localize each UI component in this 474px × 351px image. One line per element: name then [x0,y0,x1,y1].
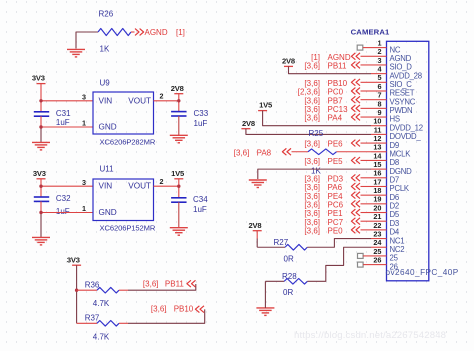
svg-text:4.7K: 4.7K [93,299,110,308]
svg-text:AGND: AGND [145,28,168,37]
ground [67,32,85,57]
svg-text:15: 15 [373,160,381,169]
svg-text:1V5: 1V5 [259,101,273,110]
capacitor C1: C31 body [34,111,49,113]
svg-text:23: 23 [373,229,381,238]
wire GND U11 pin1 [41,212,93,214]
pin 18 stub of CAMERA1 [371,194,387,196]
port PA8 to R25 [234,148,291,157]
svg-text:[3,6]: [3,6] [304,79,320,88]
svg-text:R26: R26 [99,10,114,19]
svg-text:D2: D2 [390,202,399,211]
svg-text:CAMERA1: CAMERA1 [351,27,390,36]
svg-text:GND: GND [99,123,117,132]
pin 7 stub of CAMERA1 [371,99,387,101]
wire 2V8 down to C33 [178,93,180,111]
svg-text:PB10: PB10 [328,79,348,88]
wire VIN U9 pin3 [41,100,93,102]
svg-text:3: 3 [82,93,86,102]
svg-text:8: 8 [377,99,381,108]
pin 2 stub of CAMERA1 [371,55,387,57]
svg-text:AGND: AGND [328,53,351,62]
svg-text:C33: C33 [194,109,209,118]
svg-text:2: 2 [160,177,164,186]
resistor R27 (0R) to pin 23 NC1 [257,239,371,250]
svg-text:MCLK: MCLK [390,149,412,158]
svg-text:0R: 0R [283,288,293,297]
svg-text:1: 1 [82,204,86,213]
svg-text:[3,6]: [3,6] [304,62,320,71]
resistor R25 in MCLK line [292,149,372,155]
svg-text:1: 1 [377,39,381,48]
pin 1 stub of CAMERA1 [371,47,387,49]
svg-text:PD3: PD3 [328,174,344,183]
node junction R36 tap [75,289,78,292]
svg-text:NC2: NC2 [390,245,405,254]
node junction C32/GND U11 [39,211,42,214]
svg-text:[3,6]: [3,6] [304,96,320,105]
capacitor C34 labels [193,195,208,214]
capacitor C33 labels [194,109,209,128]
svg-text:RESET: RESET [390,89,415,98]
svg-text:[3,6]: [3,6] [304,140,320,149]
svg-text:[3,6]: [3,6] [304,200,320,209]
pin 10 stub of CAMERA1 [371,125,387,127]
svg-text:10: 10 [373,117,381,126]
svg-text:0R: 0R [284,255,294,264]
svg-text:13: 13 [373,143,381,152]
svg-text:HS: HS [390,115,400,124]
node junction VOUT/1V5 [177,185,180,188]
node junction VOUT/2V8 [177,99,180,102]
svg-text:D9: D9 [390,141,399,150]
svg-text:1uF: 1uF [56,118,70,127]
svg-text:[1]: [1] [311,53,320,62]
pin 14 stub of CAMERA1 [371,159,387,161]
svg-text:[3,6]: [3,6] [304,226,320,235]
svg-text:C32: C32 [56,194,71,203]
op-amp U1: regulator U9 box [93,92,154,134]
pin 17 stub of CAMERA1 [371,185,387,187]
port PB11 to pin 3 [304,62,371,71]
svg-text:SIO_C: SIO_C [390,80,413,89]
power 2V8 to pin 4 AVDD_28 [282,57,371,74]
svg-text:1uF: 1uF [56,207,70,216]
wire R26 left to ground [76,32,98,49]
node junction 3V3/VIN U11 [39,185,42,188]
svg-text:PB11: PB11 [328,62,348,71]
svg-text:26: 26 [390,262,398,271]
svg-text:1V5: 1V5 [171,169,185,178]
svg-text:3: 3 [82,178,86,187]
svg-text:[3,6]: [3,6] [304,183,320,192]
svg-text:12: 12 [373,134,381,143]
port PE0 to pin 22 [304,226,371,235]
svg-text:[3,6]: [3,6] [304,157,320,166]
wire 3V3 down to R37 [76,265,78,323]
svg-text:[3,6]: [3,6] [304,114,320,123]
ground below C33 [170,135,188,143]
svg-text:11: 11 [374,125,382,134]
port PB7 to pin 7 [304,96,371,105]
svg-text:19: 19 [373,195,381,204]
svg-text:VIN: VIN [99,182,113,191]
resistor R26 [98,29,135,36]
svg-text:25: 25 [390,254,399,263]
svg-text:VOUT: VOUT [128,96,151,105]
capacitor C3: C33 body [171,111,186,113]
connector CAMERA1 box [387,41,429,280]
pin 6 stub of CAMERA1 [371,90,387,92]
svg-text:1K: 1K [311,167,321,176]
svg-text:PE1: PE1 [328,209,344,218]
regulator U11 box [93,179,154,221]
port PB10 (bottom) [151,305,204,314]
pin 15 stub of CAMERA1 [371,168,387,170]
wire C34 to ground [178,202,180,227]
svg-text:GND: GND [99,208,117,217]
svg-text:1uF: 1uF [193,205,207,214]
wire VIN U11 pin3 [41,185,93,187]
port PE6 to pin 12 [304,140,371,149]
svg-text:https://blog.csdn.net/a2267542: https://blog.csdn.net/a2267542848 [294,330,446,341]
pin 22 stub of CAMERA1 [371,229,387,231]
svg-text:4.7K: 4.7K [93,333,110,342]
port PC6 to pin 19 [304,200,371,209]
pin 26 stub of CAMERA1 [371,264,387,266]
wire C31 to ground [40,116,42,127]
svg-text:PE5: PE5 [328,157,344,166]
svg-text:PB11: PB11 [165,279,185,288]
wire to R37 [77,322,97,324]
svg-text:PCLK: PCLK [390,184,410,193]
resistor R37 [97,321,128,327]
svg-text:3V3: 3V3 [33,169,46,178]
svg-text:VSYNC: VSYNC [390,97,416,106]
svg-text:D7: D7 [390,176,399,185]
svg-text:3V3: 3V3 [67,255,80,264]
svg-text:16: 16 [373,169,381,178]
svg-text:R36: R36 [85,281,100,290]
svg-text:21: 21 [373,212,381,221]
ground to pin 15 DGND [249,169,371,187]
svg-text:[3,6]: [3,6] [234,148,250,157]
svg-text:[2,3,6]: [2,3,6] [298,88,320,97]
svg-text:SIO_D: SIO_D [390,63,413,72]
pin 25 stub of CAMERA1 [371,255,387,257]
port PE1 to pin 20 [304,209,371,218]
wire 3V3 down to C32 [40,179,42,197]
svg-text:U9: U9 [100,78,111,87]
svg-text:C34: C34 [193,195,208,204]
resistor R36 [97,287,128,293]
svg-text:VOUT: VOUT [128,182,151,191]
svg-text:D4: D4 [390,228,400,237]
pin 4 stub of CAMERA1 [371,73,387,75]
svg-text:D5: D5 [390,210,400,219]
svg-text:PA4: PA4 [328,114,343,123]
pin 19 stub of CAMERA1 [371,203,387,205]
svg-text:3V3: 3V3 [32,74,45,83]
no-connect square pin 26 [358,262,372,267]
svg-text:22: 22 [373,221,381,230]
pin 16 stub of CAMERA1 [371,177,387,179]
svg-text:XC6206P152MR: XC6206P152MR [100,223,156,232]
svg-text:14: 14 [373,151,382,160]
svg-text:PE0: PE0 [328,226,344,235]
wire VOUT U9 pin2 [154,100,179,102]
svg-text:PE6: PE6 [328,140,344,149]
svg-text:[1]: [1] [176,28,185,37]
resistor R28 (0R) to pin 24 NC2 [265,247,371,284]
svg-text:2V8: 2V8 [249,221,262,230]
ground below C34 [170,228,188,236]
wire C33 to ground [178,116,180,135]
svg-text:3: 3 [377,56,381,65]
pin 5 stub of CAMERA1 [371,81,387,83]
svg-text:PWDN: PWDN [390,106,413,115]
svg-text:PC13: PC13 [328,105,349,114]
pin 23 stub of CAMERA1 [371,238,387,240]
svg-text:1uF: 1uF [194,119,208,128]
svg-text:PB7: PB7 [328,96,344,105]
port AGND to pin 2 [311,53,371,62]
svg-text:26: 26 [373,256,381,265]
port PE5 to pin 14 [304,157,371,166]
port PC7 to pin 21 [304,218,371,227]
pin 9 stub of CAMERA1 [371,116,387,118]
node junction C31/GND [39,125,42,128]
svg-text:D3: D3 [390,219,399,228]
svg-text:PA8: PA8 [257,148,272,157]
svg-text:[3,6]: [3,6] [304,209,320,218]
port PB11 (bottom) [143,279,196,288]
pin 20 stub of CAMERA1 [371,212,387,214]
node junction 3V3/VIN [39,99,42,102]
svg-text:DVDD_12: DVDD_12 [390,123,423,132]
svg-text:U11: U11 [100,165,115,174]
svg-text:24: 24 [373,238,382,247]
svg-text:PE4: PE4 [328,192,344,201]
wire 3V3 down to C31 [40,84,42,112]
svg-text:R25: R25 [309,129,324,138]
svg-text:PA6: PA6 [328,183,343,192]
wire R37 to port PB10 [128,309,205,323]
svg-text:AGND: AGND [390,54,412,63]
svg-text:PC0: PC0 [328,88,344,97]
svg-text:R37: R37 [85,314,100,323]
port PC13 to pin 8 [304,105,371,114]
svg-text:5: 5 [377,73,381,82]
ground below C31 [32,142,50,150]
svg-text:2V8: 2V8 [171,84,184,93]
wire 1V5 down to C34 [178,179,180,198]
svg-text:C31: C31 [56,109,71,118]
capacitor C2: C32 body [34,196,49,198]
port PE4 to pin 18 [304,192,371,201]
wire R36 to port PB11 [128,284,196,290]
power 1V5 to pin 10 DVDD_12 [258,101,371,126]
svg-text:7: 7 [377,91,381,100]
svg-text:XC6206P282MR: XC6206P282MR [100,137,156,146]
wire VOUT U11 pin2 [154,185,179,187]
svg-text:1: 1 [82,119,86,128]
svg-text:DOVDD_: DOVDD_ [390,132,422,141]
port PA6 to pin 17 [304,183,371,192]
svg-text:NC: NC [390,45,401,54]
svg-text:6: 6 [377,82,381,91]
svg-text:[3,6]: [3,6] [304,218,320,227]
svg-text:1K: 1K [100,45,110,54]
port PC0 to pin 6 [298,88,371,97]
svg-text:[3,6]: [3,6] [304,174,320,183]
pin 12 stub of CAMERA1 [371,142,387,144]
svg-text:2: 2 [160,91,164,100]
svg-text:PC7: PC7 [328,218,344,227]
svg-text:2V8: 2V8 [242,119,255,128]
no-connect square pin 25 [358,253,372,258]
pin 3 stub of CAMERA1 [371,64,387,66]
ground below C32 [32,237,50,245]
power 2V8 to pin 11 DOVDD_ [241,119,371,135]
svg-text:[3,6]: [3,6] [304,105,320,114]
capacitor C4: C34 body [171,197,186,199]
svg-text:17: 17 [373,177,381,186]
power 2V8 to R27 [249,221,262,247]
pin 24 stub of CAMERA1 [371,246,387,248]
pin 13 stub of CAMERA1 [371,151,387,153]
svg-text:2: 2 [377,47,381,56]
port PA4 to pin 9 [304,114,371,123]
svg-text:PC6: PC6 [328,200,344,209]
no-connect square pin 1 [357,45,371,50]
svg-text:2V8: 2V8 [282,57,295,66]
ground to R28 [256,281,274,315]
svg-text:18: 18 [373,186,381,195]
svg-text:25: 25 [373,247,381,256]
port AGND (output) [135,28,185,37]
svg-text:R28: R28 [282,272,297,281]
svg-text:[3,6]: [3,6] [151,305,167,314]
svg-text:AVDD_28: AVDD_28 [390,71,422,80]
svg-text:[3,6]: [3,6] [304,192,320,201]
svg-text:D6: D6 [390,193,399,202]
svg-text:PB10: PB10 [174,305,194,314]
wire to R36 [77,289,97,291]
pin 21 stub of CAMERA1 [371,220,387,222]
pin 11 stub of CAMERA1 [371,133,387,135]
wire C32 to ground [40,201,42,212]
capacitor C32 labels [56,194,71,216]
svg-text:D8: D8 [390,158,399,167]
wire GND U9 pin1 [41,126,93,128]
port PB10 to pin 5 [304,79,371,88]
svg-text:9: 9 [377,108,381,117]
svg-text:[3,6]: [3,6] [143,279,159,288]
port PD3 to pin 16 [304,174,371,183]
capacitor C31 labels [56,109,71,127]
svg-text:20: 20 [373,203,381,212]
pin 8 stub of CAMERA1 [371,107,387,109]
svg-text:DGND: DGND [390,167,413,176]
svg-text:NC1: NC1 [390,236,405,245]
svg-text:VIN: VIN [99,96,113,105]
